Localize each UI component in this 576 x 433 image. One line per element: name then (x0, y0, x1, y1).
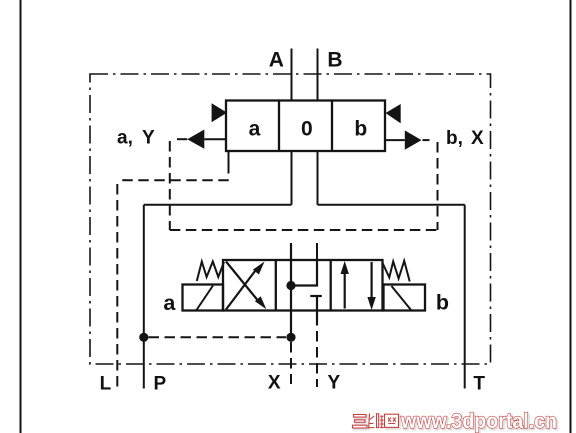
svg-text:P: P (154, 374, 167, 395)
svg-text:b: b (354, 117, 367, 140)
svg-text:L: L (100, 374, 112, 395)
svg-text:b: b (436, 290, 449, 314)
svg-text:Y: Y (328, 373, 341, 394)
svg-text:a,: a, (117, 128, 133, 149)
svg-text:A: A (269, 49, 284, 72)
svg-text:X: X (471, 128, 484, 149)
svg-text:www.3dportal.cn: www.3dportal.cn (400, 410, 557, 433)
svg-text:X: X (268, 373, 281, 394)
svg-text:Y: Y (142, 128, 155, 149)
svg-text:T: T (473, 374, 485, 395)
svg-text:B: B (327, 49, 342, 72)
svg-text:b,: b, (446, 128, 463, 149)
svg-text:a: a (249, 117, 261, 140)
svg-text:a: a (163, 291, 176, 315)
svg-text:0: 0 (301, 117, 313, 140)
